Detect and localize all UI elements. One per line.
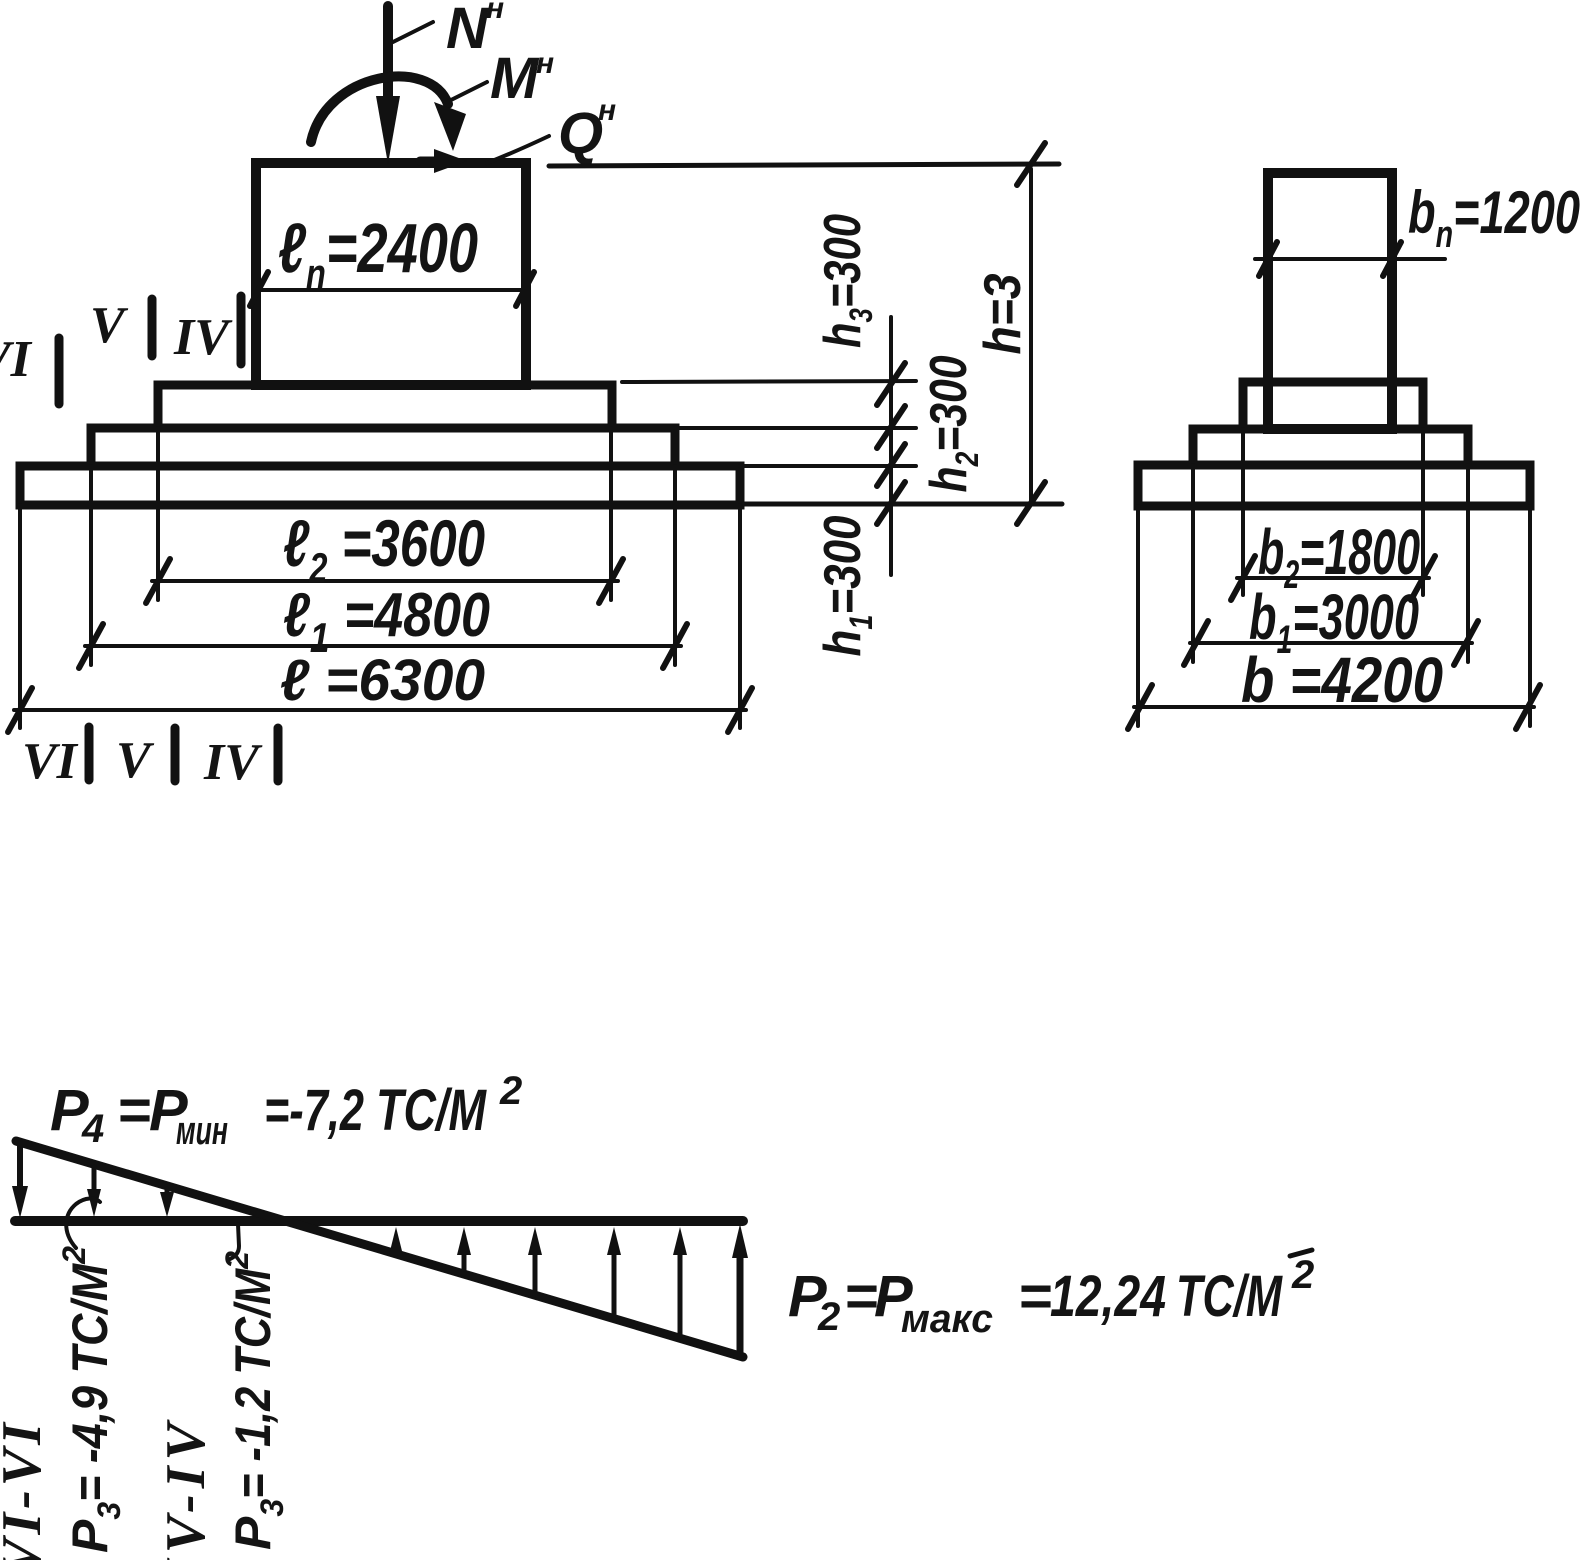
step 3 of foundation (left view): [158, 385, 612, 428]
section mark V (top): [90, 297, 129, 354]
extension line right edge of cup step down to b2 dimension: [1421, 429, 1425, 595]
svg-text:ℓ2 =3600: ℓ2 =3600: [283, 506, 485, 591]
section bar IV (bottom): [274, 728, 283, 781]
column (right side view): [1268, 173, 1392, 429]
extension line left edge of base down to l dimension: [18, 505, 22, 728]
svg-text:b =4200: b =4200: [1241, 644, 1443, 716]
base slab (right view): [1138, 465, 1530, 506]
extension line right edge of base down to l dimension: [738, 505, 742, 728]
extension line left edge of base down to b dimension: [1136, 506, 1140, 726]
column (left elevation view): [256, 163, 526, 385]
dimension b=4200: [1128, 685, 1540, 729]
svg-text:ТС/М: ТС/М: [376, 1078, 487, 1143]
label M^H: [490, 46, 554, 111]
extension line left edge of middle step down to b1 dimension: [1191, 465, 1195, 662]
svg-text:IV: IV: [173, 309, 233, 366]
extension line right edge of base down to b dimension: [1528, 506, 1532, 726]
dimension b_n=1200: [1255, 242, 1445, 276]
svg-text:=: =: [844, 1264, 878, 1329]
svg-text:=-7,2: =-7,2: [264, 1078, 364, 1143]
dimension line h: [1029, 169, 1033, 504]
label N^H: [446, 0, 504, 61]
section bar V (bottom): [171, 728, 180, 781]
extension line right edge of step3 down to l2 dimension: [609, 428, 613, 600]
moment M arc arrow: [311, 76, 466, 151]
dimension b1=3000: [1184, 621, 1478, 665]
svg-text:12,24: 12,24: [1050, 1264, 1166, 1329]
svg-text:h2=300: h2=300: [920, 355, 985, 492]
dimension l2=3600: [146, 559, 623, 603]
dimension l=6300: [8, 688, 752, 732]
leader M: [449, 82, 487, 101]
svg-text:P3= -4,9 ТС/М2: P3= -4,9 ТС/М2: [56, 1246, 127, 1553]
section bar IV (top): [237, 296, 246, 364]
leader N: [393, 22, 433, 42]
svg-text:ℓ =6300: ℓ =6300: [280, 648, 485, 713]
svg-text:2: 2: [817, 1295, 840, 1339]
label P4 = Pmin = -7,2 tc/m2: [50, 1069, 522, 1153]
accent tick over superscript 2 of P2 label: [1290, 1250, 1312, 1256]
force N arrow: [376, 6, 400, 164]
svg-text:=: =: [117, 1078, 151, 1143]
positive pressure arrow at x=614: [607, 1227, 621, 1319]
positive pressure arrow at x=680: [673, 1227, 687, 1338]
svg-text:P3= -1,2 ТС/М2: P3= -1,2 ТС/М2: [219, 1251, 290, 1550]
label Q^H: [558, 94, 616, 166]
svg-text:M: M: [490, 46, 540, 111]
leader Q: [487, 136, 549, 163]
base slab of foundation (left view): [20, 466, 740, 505]
pressure diagram baseline: [15, 1216, 743, 1226]
negative pressure arrow at x=94: [87, 1167, 101, 1217]
svg-text:V: V: [116, 732, 155, 789]
svg-text:IV-IV: IV-IV: [155, 1417, 217, 1560]
extension line top of column to h dimension: [549, 164, 1059, 166]
svg-text:мин: мин: [176, 1109, 228, 1153]
svg-text:4: 4: [81, 1107, 104, 1151]
section mark IV (top): [173, 309, 233, 366]
pressure diagram left edge with down arrow: [12, 1141, 28, 1218]
pressure diagram right edge with up arrow: [732, 1224, 748, 1357]
svg-text:VI-VI: VI-VI: [0, 1419, 53, 1560]
dimension l_n=2400: [250, 272, 534, 306]
leader from P3=-4,9 label to diagram: [66, 1198, 100, 1248]
step 3 cup (right view): [1243, 382, 1423, 429]
dimension line h1 h2 h3: [889, 317, 893, 575]
section marks VI V IV (bottom): [22, 732, 263, 791]
svg-text:ℓn=2400: ℓn=2400: [278, 209, 478, 297]
section bar VI (top left): [55, 338, 64, 404]
svg-text:Q: Q: [558, 101, 603, 166]
dimension l1=4800: [79, 624, 687, 668]
svg-text:макс: макс: [901, 1297, 993, 1341]
section mark VI (top left): [0, 331, 33, 388]
section bar V (top): [148, 299, 157, 356]
svg-text:VI: VI: [0, 331, 33, 388]
force Q arrow: [420, 149, 467, 173]
svg-text:h3=300: h3=300: [814, 214, 879, 348]
svg-text:2: 2: [1291, 1253, 1314, 1297]
extension line top of step2 to h2 dimension: [675, 426, 916, 430]
ticks on h dimensions: [877, 143, 1045, 524]
svg-text:N: N: [446, 0, 489, 61]
svg-text:н: н: [536, 47, 554, 80]
svg-text:bn=1200: bn=1200: [1408, 179, 1580, 256]
svg-text:н: н: [486, 0, 504, 25]
svg-text:V: V: [90, 297, 129, 354]
step 2 (right view): [1193, 429, 1468, 465]
step 2 of foundation (left view): [91, 428, 675, 466]
pressure diagram sloped line: [16, 1141, 743, 1357]
svg-text:IV: IV: [203, 734, 263, 791]
extension line right edge of step2 down to l1 dimension: [673, 466, 677, 665]
svg-text:=: =: [1018, 1264, 1052, 1329]
extension line bottom of base to h dimension: [744, 502, 1062, 507]
svg-text:2: 2: [499, 1069, 522, 1113]
svg-text:VI: VI: [22, 733, 79, 790]
positive pressure arrow at x=396: [389, 1227, 403, 1255]
svg-text:h=3: h=3: [974, 273, 1032, 354]
leader from P3=-1,2 label to diagram: [230, 1224, 239, 1259]
svg-text:ТС/М: ТС/М: [1176, 1264, 1283, 1329]
negative pressure arrow at x=167: [160, 1189, 174, 1217]
extension line right edge of middle step down to b1 dimension: [1466, 465, 1470, 662]
svg-text:h1=300: h1=300: [814, 515, 879, 656]
positive pressure arrow at x=464: [457, 1227, 471, 1274]
positive pressure arrow at x=535: [528, 1227, 542, 1295]
dimension b2=1800: [1231, 556, 1435, 600]
svg-text:н: н: [598, 94, 616, 127]
extension line left edge of step3 down to l2 dimension: [156, 428, 160, 600]
extension line top of base to h1 dimension: [740, 464, 916, 468]
section bar VI (bottom): [85, 727, 94, 780]
extension line left edge of cup step down to b2 dimension: [1241, 429, 1245, 595]
label P2 = Pmax = 12,24 tc/m2: [788, 1253, 1314, 1341]
extension line left edge of step2 down to l1 dimension: [89, 466, 93, 665]
extension line top of step3 to h3 dimension: [622, 381, 916, 382]
